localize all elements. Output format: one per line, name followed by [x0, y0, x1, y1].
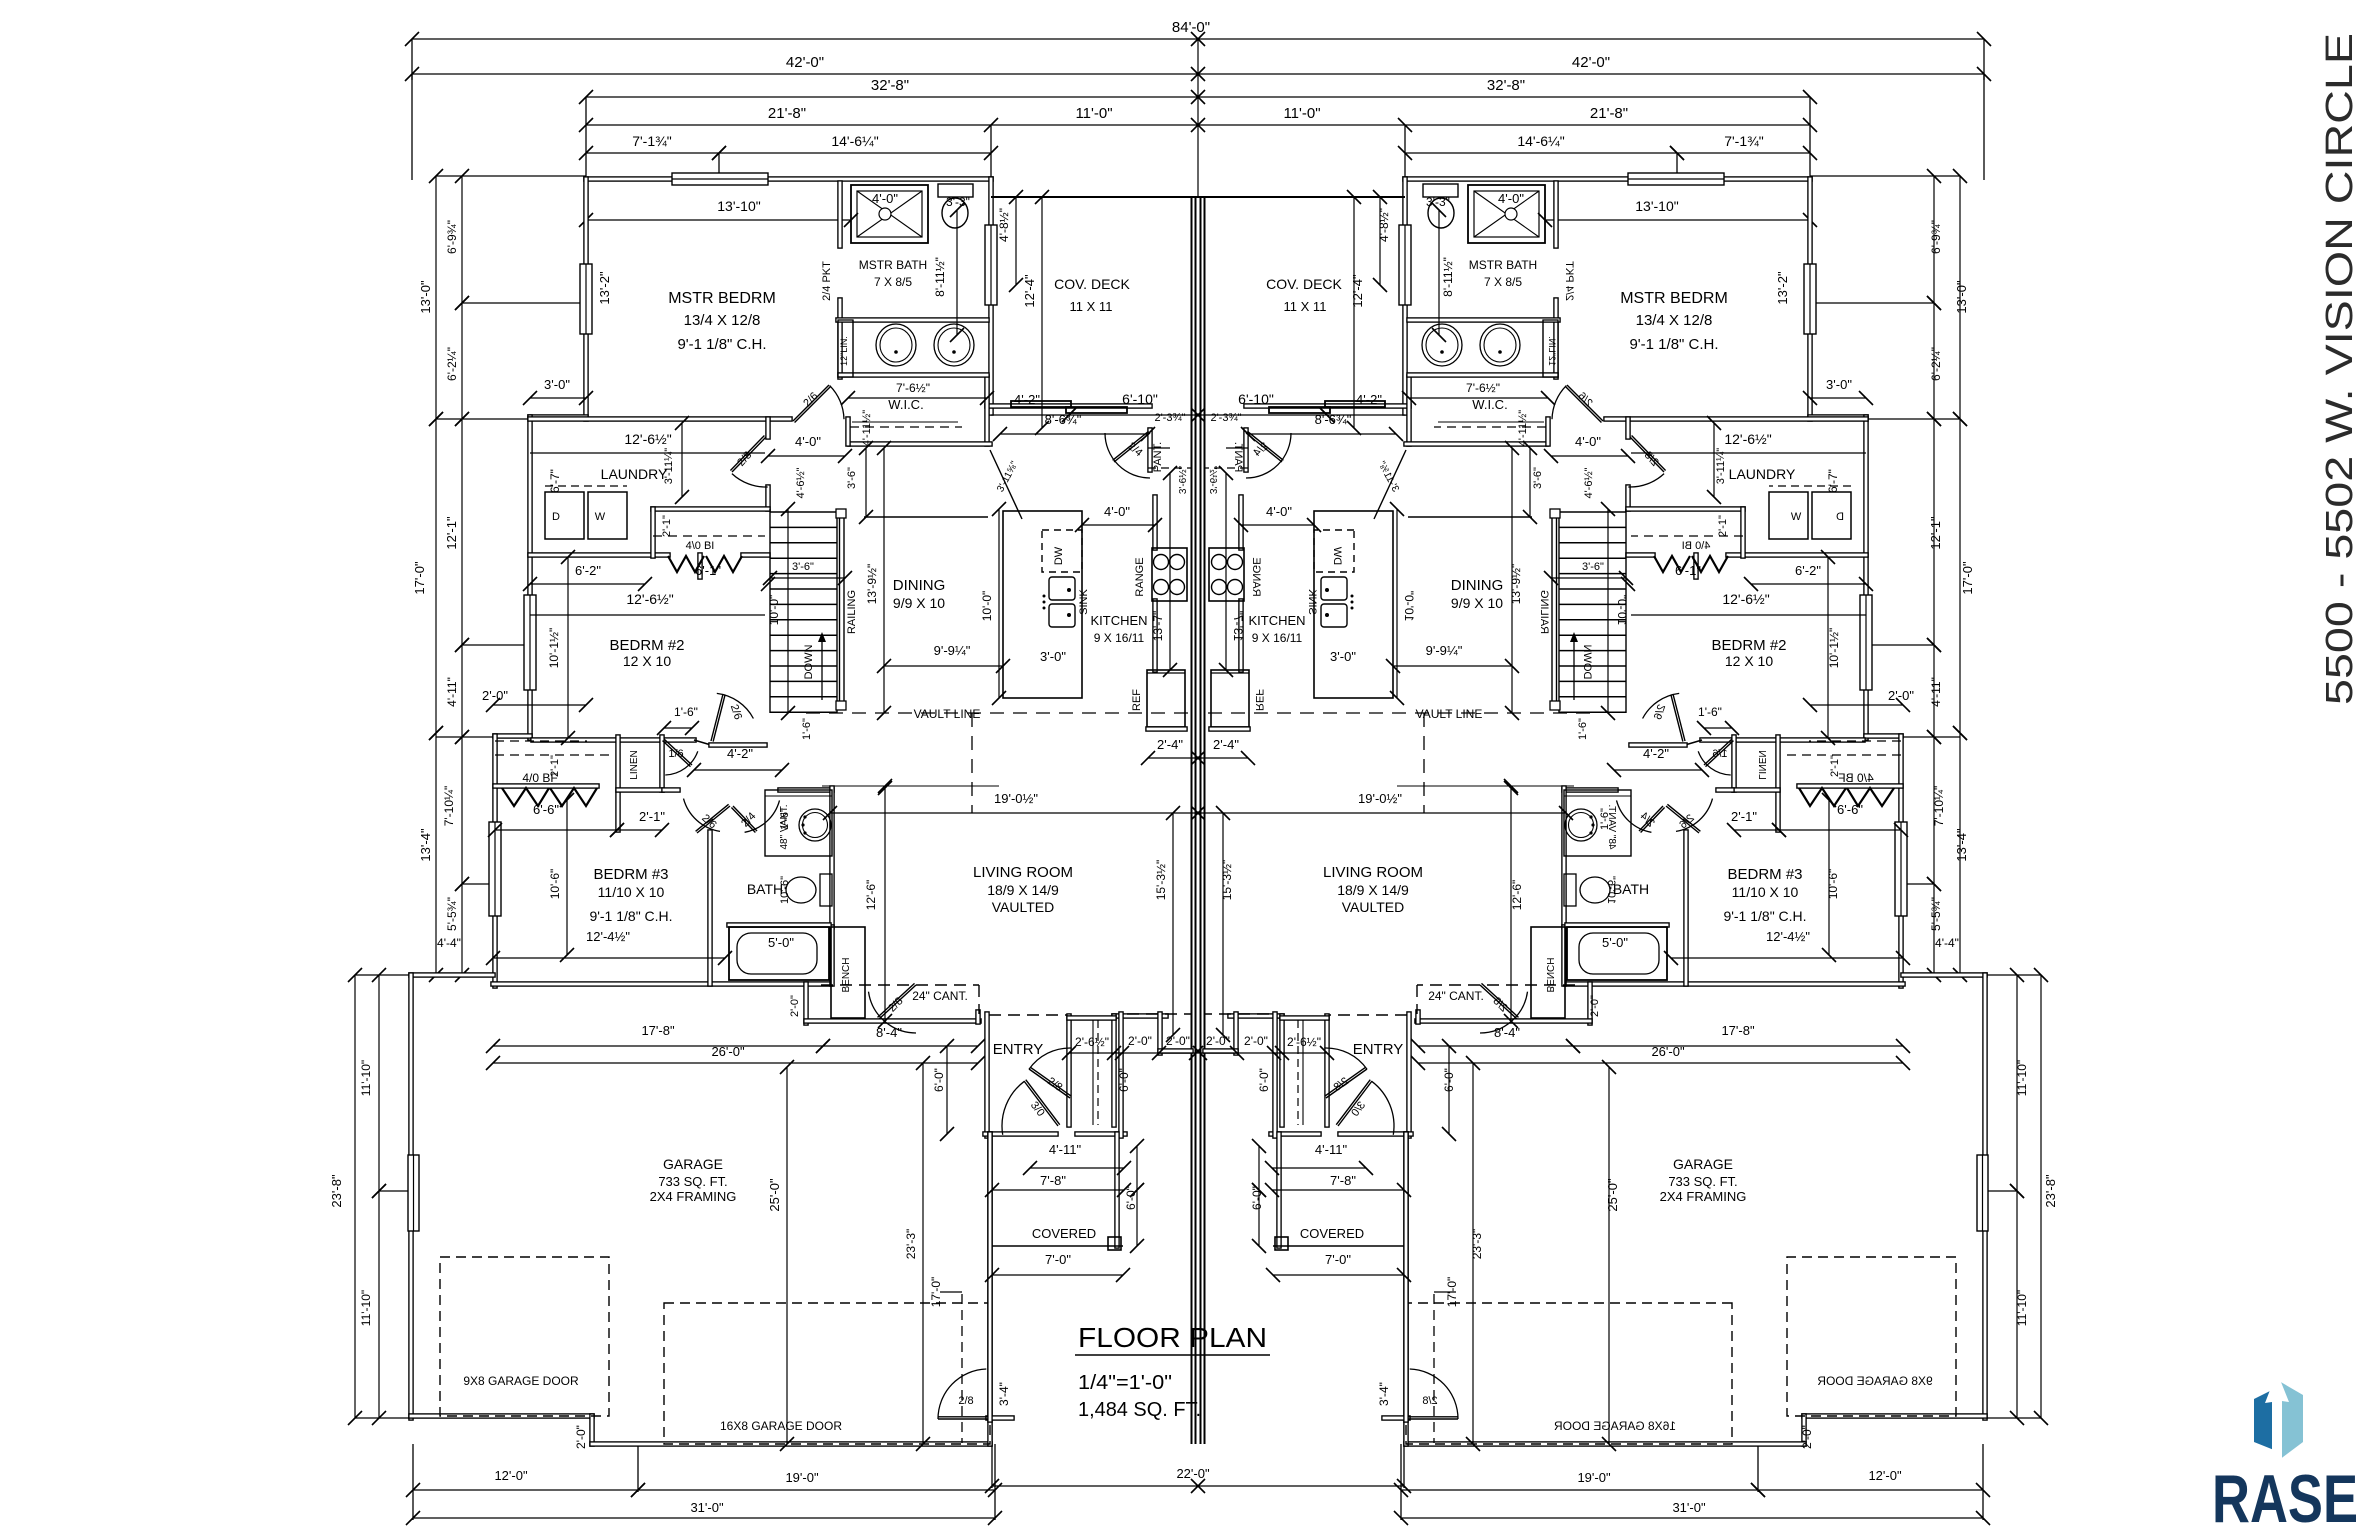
svg-text:4'-0": 4'-0" [872, 191, 898, 206]
svg-text:3'-3": 3'-3" [946, 195, 970, 209]
svg-text:3'-6": 3'-6" [1582, 561, 1604, 573]
entry coat closet [1067, 1014, 1071, 1127]
svg-text:8'-6¾": 8'-6¾" [1045, 412, 1082, 427]
svg-text:RASE: RASE [2212, 1461, 2356, 1526]
interior doors with swing arcs [793, 385, 829, 421]
svg-text:4'-0": 4'-0" [795, 434, 821, 449]
left unit geometry [348, 32, 1205, 1525]
svg-text:15'-3½": 15'-3½" [1154, 860, 1168, 901]
svg-text:13'-4": 13'-4" [1954, 828, 1969, 862]
svg-text:BATH: BATH [747, 881, 783, 897]
svg-text:2'-0": 2'-0" [1244, 1034, 1268, 1048]
svg-text:4'-11": 4'-11" [1315, 1142, 1348, 1157]
svg-text:16X8 GARAGE DOOR: 16X8 GARAGE DOOR [720, 1419, 842, 1433]
svg-text:6'-10": 6'-10" [1238, 391, 1274, 407]
svg-text:12'-6": 12'-6" [1510, 880, 1524, 911]
svg-text:ENTRY: ENTRY [993, 1041, 1044, 1058]
svg-text:COVERED: COVERED [1032, 1226, 1096, 1241]
svg-text:W.I.C.: W.I.C. [1472, 397, 1507, 412]
svg-text:VAULT LINE: VAULT LINE [1416, 707, 1483, 721]
svg-text:17'-0": 17'-0" [1445, 1277, 1459, 1308]
svg-text:42'-0": 42'-0" [786, 54, 824, 71]
svg-text:7 X 8/5: 7 X 8/5 [1484, 275, 1522, 289]
room and dimension labels [329, 54, 2058, 1515]
svg-text:2'-0": 2'-0" [1206, 1034, 1230, 1048]
svg-text:2'-0": 2'-0" [1166, 1034, 1190, 1048]
svg-text:6'-0": 6'-0" [1442, 1068, 1456, 1092]
svg-text:6'-7": 6'-7" [548, 469, 562, 493]
svg-text:DOWN: DOWN [803, 645, 815, 680]
svg-text:12'-6½": 12'-6½" [1722, 591, 1769, 607]
svg-text:23'-3": 23'-3" [904, 1229, 918, 1260]
svg-text:2'-3¾": 2'-3¾" [1210, 412, 1241, 424]
svg-text:BEDRM #2: BEDRM #2 [609, 637, 684, 654]
svg-text:10'-6": 10'-6" [1826, 869, 1840, 900]
svg-text:VAULTED: VAULTED [1342, 899, 1405, 915]
svg-text:MSTR BEDRM: MSTR BEDRM [1620, 290, 1728, 307]
svg-text:BEDRM #3: BEDRM #3 [1727, 866, 1802, 883]
svg-text:2'-6½": 2'-6½" [1075, 1035, 1109, 1049]
svg-text:3'-6½": 3'-6½" [1178, 465, 1189, 494]
svg-text:21'-8": 21'-8" [768, 105, 806, 122]
svg-text:12'-1": 12'-1" [444, 516, 459, 550]
svg-text:8'-11½": 8'-11½" [933, 257, 947, 297]
svg-text:2'-3¾": 2'-3¾" [1154, 412, 1185, 424]
svg-text:1'-6": 1'-6" [1599, 808, 1611, 830]
svg-text:4'-2": 4'-2" [1643, 746, 1669, 761]
svg-text:4'-11½": 4'-11½" [861, 410, 873, 446]
svg-text:9 X 16/11: 9 X 16/11 [1252, 631, 1303, 645]
svg-text:6'-0": 6'-0" [932, 1068, 946, 1092]
svg-text:9/9 X 10: 9/9 X 10 [893, 595, 945, 611]
svg-text:4'-2": 4'-2" [1356, 392, 1382, 407]
svg-text:12 X 10: 12 X 10 [623, 653, 671, 669]
garage walls and doors [409, 973, 495, 977]
svg-text:2'-1": 2'-1" [639, 809, 665, 824]
master bath shower toilet vanity sinks [851, 185, 928, 243]
svg-text:22'-0": 22'-0" [1176, 1466, 1210, 1481]
svg-text:4'-4": 4'-4" [1935, 936, 1959, 950]
svg-text:17'-8": 17'-8" [641, 1023, 675, 1038]
svg-text:25'-0": 25'-0" [767, 1178, 782, 1212]
svg-text:COV. DECK: COV. DECK [1266, 276, 1342, 292]
outer and interior walls left unit [584, 177, 993, 181]
svg-text:12'-6½": 12'-6½" [624, 431, 671, 447]
svg-text:9'-1 1/8" C.H.: 9'-1 1/8" C.H. [1723, 908, 1806, 924]
svg-text:26'-0": 26'-0" [1651, 1044, 1685, 1059]
svg-text:23'-8": 23'-8" [329, 1174, 344, 1208]
svg-text:3'-11¼": 3'-11¼" [663, 448, 675, 484]
svg-text:PANT.: PANT. [1152, 442, 1164, 472]
svg-text:4'-0": 4'-0" [1575, 434, 1601, 449]
stairs with treads railing and DOWN arrow [770, 511, 837, 513]
svg-text:25'-0": 25'-0" [1605, 1178, 1620, 1212]
svg-text:17'-0": 17'-0" [1960, 561, 1975, 595]
svg-text:2X4 FRAMING: 2X4 FRAMING [650, 1189, 737, 1204]
vault line and cantilever dashed lines [806, 712, 1191, 714]
svg-text:VAULT LINE: VAULT LINE [914, 707, 981, 721]
svg-text:LAUNDRY: LAUNDRY [1729, 466, 1796, 482]
svg-text:D: D [552, 511, 560, 523]
svg-text:12'-4": 12'-4" [1350, 274, 1365, 308]
svg-text:4'-2": 4'-2" [1014, 392, 1040, 407]
svg-text:31'-0": 31'-0" [690, 1500, 724, 1515]
svg-text:1'-6": 1'-6" [1698, 705, 1722, 719]
svg-text:19'-0": 19'-0" [785, 1470, 819, 1485]
svg-text:6'-1": 6'-1" [1675, 563, 1701, 578]
svg-text:9'-1 1/8" C.H.: 9'-1 1/8" C.H. [677, 336, 766, 353]
svg-text:2'-0": 2'-0" [482, 688, 508, 703]
svg-text:14'-6¼": 14'-6¼" [1517, 133, 1564, 149]
svg-text:6'-7": 6'-7" [1826, 469, 1840, 493]
svg-text:733 SQ. FT.: 733 SQ. FT. [1668, 1174, 1737, 1189]
svg-text:31'-0": 31'-0" [1672, 1500, 1706, 1515]
svg-text:2/4 PKT: 2/4 PKT [821, 261, 833, 301]
svg-text:RAILING: RAILING [846, 590, 858, 634]
svg-text:COVERED: COVERED [1300, 1226, 1364, 1241]
svg-text:1'-6": 1'-6" [674, 705, 698, 719]
svg-text:8'-4": 8'-4" [876, 1025, 902, 1040]
svg-text:15'-3½": 15'-3½" [1220, 860, 1234, 901]
svg-text:9 X 16/11: 9 X 16/11 [1094, 631, 1145, 645]
svg-text:BENCH: BENCH [841, 957, 852, 992]
svg-text:12'-6": 12'-6" [864, 880, 878, 911]
svg-text:2/8: 2/8 [958, 1395, 973, 1407]
svg-text:23'-3": 23'-3" [1470, 1229, 1484, 1260]
svg-text:4'-0": 4'-0" [1498, 191, 1524, 206]
svg-text:13/4 X 12/8: 13/4 X 12/8 [1636, 312, 1713, 329]
svg-text:12"LIN.: 12"LIN. [839, 336, 849, 366]
svg-text:2X4 FRAMING: 2X4 FRAMING [1660, 1189, 1747, 1204]
entry coat closet [1029, 1069, 1070, 1098]
svg-text:7'-0": 7'-0" [1325, 1252, 1351, 1267]
svg-text:6'-6": 6'-6" [1837, 802, 1863, 817]
svg-text:11'-10": 11'-10" [359, 1290, 373, 1326]
svg-text:W.I.C.: W.I.C. [888, 397, 923, 412]
svg-text:13'-0": 13'-0" [418, 280, 433, 314]
svg-text:2'-0": 2'-0" [1800, 1425, 1814, 1449]
svg-text:2'-4": 2'-4" [1157, 737, 1183, 752]
svg-text:7'-1¾": 7'-1¾" [632, 133, 672, 149]
svg-text:24" CANT.: 24" CANT. [912, 989, 968, 1003]
svg-text:ENTRY: ENTRY [1353, 1041, 1404, 1058]
svg-text:2'-1": 2'-1" [1829, 755, 1841, 777]
kitchen island DW sink range REF pantry [1003, 511, 1082, 698]
svg-text:MSTR BATH: MSTR BATH [1469, 258, 1537, 272]
svg-text:7'-6½": 7'-6½" [1466, 381, 1500, 395]
svg-text:BEDRM #2: BEDRM #2 [1711, 637, 1786, 654]
svg-text:9'-1 1/8" C.H.: 9'-1 1/8" C.H. [589, 908, 672, 924]
svg-text:6'-0": 6'-0" [1257, 1068, 1271, 1092]
svg-text:7'-10¼": 7'-10¼" [1932, 786, 1946, 827]
svg-text:LIVING ROOM: LIVING ROOM [973, 864, 1073, 881]
svg-text:32'-8": 32'-8" [871, 77, 909, 94]
svg-text:10'-0": 10'-0" [980, 591, 994, 622]
svg-text:1'-6": 1'-6" [801, 718, 813, 740]
svg-text:17'-0": 17'-0" [929, 1277, 943, 1308]
svg-text:DINING: DINING [1451, 577, 1504, 594]
svg-text:4'-4": 4'-4" [437, 936, 461, 950]
svg-text:2'-1": 2'-1" [549, 755, 561, 777]
svg-text:BATH: BATH [1613, 881, 1649, 897]
svg-text:11'-10": 11'-10" [359, 1060, 373, 1096]
svg-text:GARAGE: GARAGE [1673, 1156, 1733, 1172]
svg-text:6'-6": 6'-6" [533, 802, 559, 817]
svg-text:3'-6": 3'-6" [1532, 467, 1544, 489]
svg-text:3'-6": 3'-6" [792, 561, 814, 573]
svg-text:12'-4": 12'-4" [1022, 274, 1037, 308]
svg-text:2'-0": 2'-0" [574, 1425, 588, 1449]
garage left dimension columns 23-8 / 11-10 [354, 975, 356, 1418]
svg-text:14'-6¼": 14'-6¼" [831, 133, 878, 149]
svg-text:7'-0": 7'-0" [1045, 1252, 1071, 1267]
svg-text:12'-1": 12'-1" [1928, 516, 1943, 550]
svg-text:1/6: 1/6 [668, 748, 683, 760]
svg-text:KITCHEN: KITCHEN [1248, 613, 1305, 628]
svg-text:2'-0": 2'-0" [1128, 1034, 1152, 1048]
svg-text:4'-11": 4'-11" [1929, 677, 1943, 707]
svg-text:10'-1½": 10'-1½" [1827, 628, 1841, 669]
svg-text:4'-8½": 4'-8½" [1377, 208, 1391, 242]
svg-text:4'-2": 4'-2" [727, 746, 753, 761]
svg-text:13'-10": 13'-10" [717, 198, 760, 214]
svg-text:12'-6½": 12'-6½" [626, 591, 673, 607]
svg-text:8'-6¾": 8'-6¾" [1315, 412, 1352, 427]
svg-text:2'-6½": 2'-6½" [1287, 1035, 1321, 1049]
svg-text:19'-0": 19'-0" [1577, 1470, 1611, 1485]
svg-text:4'-8½": 4'-8½" [997, 208, 1011, 242]
main bath tub bench toilet vanity [729, 927, 829, 980]
svg-text:GARAGE: GARAGE [663, 1156, 723, 1172]
right unit geometry (mirrored) [1191, 32, 2048, 1525]
svg-text:9/9 X 10: 9/9 X 10 [1451, 595, 1503, 611]
svg-text:6'-2¼": 6'-2¼" [1929, 347, 1943, 381]
svg-text:7 X 8/5: 7 X 8/5 [874, 275, 912, 289]
svg-text:3'-0": 3'-0" [544, 377, 570, 392]
svg-text:6'-2¼": 6'-2¼" [445, 347, 459, 381]
svg-text:7'-8": 7'-8" [1040, 1173, 1066, 1188]
svg-text:2'-4": 2'-4" [1213, 737, 1239, 752]
svg-text:21'-8": 21'-8" [1590, 105, 1628, 122]
svg-text:4'-0": 4'-0" [1266, 504, 1292, 519]
svg-text:13'-9½": 13'-9½" [865, 564, 879, 605]
svg-text:DINING: DINING [893, 577, 946, 594]
svg-text:18/9 X 14/9: 18/9 X 14/9 [1337, 882, 1409, 898]
svg-text:LIVING ROOM: LIVING ROOM [1323, 864, 1423, 881]
svg-text:13'-2": 13'-2" [597, 271, 612, 305]
svg-text:6'-2": 6'-2" [575, 563, 601, 578]
RASE builder logo icon [2254, 1372, 2303, 1462]
svg-text:12 X 10: 12 X 10 [1725, 653, 1773, 669]
svg-text:8'-4": 8'-4" [1494, 1025, 1520, 1040]
svg-text:2'-1": 2'-1" [1717, 515, 1729, 537]
svg-text:13'-9½": 13'-9½" [1509, 564, 1523, 605]
svg-text:LINEN: LINEN [629, 750, 640, 779]
svg-text:84'-0": 84'-0" [1172, 19, 1210, 36]
svg-text:3'-0": 3'-0" [1826, 377, 1852, 392]
svg-text:9'-9¼": 9'-9¼" [934, 643, 971, 658]
svg-text:11'-10": 11'-10" [2015, 1290, 2029, 1326]
svg-text:12'-0": 12'-0" [494, 1468, 528, 1483]
svg-text:4'-11": 4'-11" [1049, 1142, 1082, 1157]
svg-text:5'-0": 5'-0" [768, 935, 794, 950]
left vertical dimension columns [435, 176, 437, 419]
svg-text:11 X 11: 11 X 11 [1070, 299, 1113, 314]
svg-text:2'-0": 2'-0" [1888, 688, 1914, 703]
svg-text:1'-6": 1'-6" [1577, 718, 1589, 740]
svg-text:3'-0": 3'-0" [1330, 649, 1356, 664]
top dimension lines 84ft/42ft/32-8/21-8/11-0/7-1.75/14-6.25 [412, 38, 1198, 40]
svg-text:12'-0": 12'-0" [1868, 1468, 1902, 1483]
svg-text:11 X 11: 11 X 11 [1284, 299, 1327, 314]
svg-text:13'-0": 13'-0" [1954, 280, 1969, 314]
svg-text:1/4"=1'-0": 1/4"=1'-0" [1078, 1372, 1172, 1394]
svg-text:5500 - 5502 W. VISION CIRCLE: 5500 - 5502 W. VISION CIRCLE [2319, 33, 2356, 705]
svg-text:13'-7": 13'-7" [1151, 611, 1165, 642]
svg-text:5'-5¾": 5'-5¾" [1929, 897, 1943, 931]
svg-text:4'-6½": 4'-6½" [1583, 467, 1595, 498]
svg-text:6'-0": 6'-0" [1117, 1068, 1131, 1092]
svg-text:MSTR BATH: MSTR BATH [859, 258, 927, 272]
svg-text:23'-8": 23'-8" [2043, 1174, 2058, 1208]
svg-text:REF: REF [1131, 689, 1143, 711]
svg-text:11'-0": 11'-0" [1075, 105, 1112, 122]
svg-text:6'-2": 6'-2" [1795, 563, 1821, 578]
svg-text:13'-4": 13'-4" [418, 828, 433, 862]
svg-text:RANGE: RANGE [1134, 557, 1146, 596]
svg-text:5'-0": 5'-0" [1602, 935, 1628, 950]
svg-text:12'-6½": 12'-6½" [1724, 431, 1771, 447]
svg-text:SINK: SINK [1078, 589, 1090, 615]
svg-text:3'-6": 3'-6" [846, 467, 858, 489]
svg-text:12'-4½": 12'-4½" [1766, 929, 1810, 944]
svg-text:3'-3": 3'-3" [1426, 195, 1450, 209]
covered deck slider door and dims [1011, 401, 1071, 407]
svg-text:4'-6½": 4'-6½" [795, 467, 807, 498]
svg-text:6'-0": 6'-0" [1124, 1186, 1138, 1210]
svg-text:13'-10": 13'-10" [1635, 198, 1678, 214]
svg-text:3'-11¼": 3'-11¼" [1715, 448, 1727, 484]
svg-text:7'-1¾": 7'-1¾" [1724, 133, 1764, 149]
svg-text:17'-8": 17'-8" [1721, 1023, 1755, 1038]
svg-text:13/4 X 12/8: 13/4 X 12/8 [684, 312, 761, 329]
svg-text:24" CANT.: 24" CANT. [1428, 989, 1484, 1003]
svg-text:5'-5¾": 5'-5¾" [445, 897, 459, 931]
svg-text:2'-0": 2'-0" [1589, 995, 1601, 1017]
svg-text:COV. DECK: COV. DECK [1054, 276, 1130, 292]
svg-text:10'-0": 10'-0" [767, 595, 781, 626]
svg-text:LAUNDRY: LAUNDRY [601, 466, 668, 482]
bottom dimension lines 12-0/19-0/31-0/22-0 [413, 1489, 638, 1491]
svg-text:11/10 X 10: 11/10 X 10 [598, 884, 665, 900]
svg-text:4'-0": 4'-0" [1104, 504, 1130, 519]
svg-text:8'-11½": 8'-11½" [1441, 257, 1455, 297]
svg-text:3'-0": 3'-0" [1040, 649, 1066, 664]
svg-text:19'-0½": 19'-0½" [1358, 791, 1402, 806]
svg-text:12'-4½": 12'-4½" [586, 929, 630, 944]
svg-text:6'-1": 6'-1" [695, 563, 721, 578]
interior dimension lines [530, 452, 765, 454]
svg-text:4\0 BI: 4\0 BI [686, 540, 715, 552]
svg-text:1,484 SQ. FT.: 1,484 SQ. FT. [1078, 1399, 1201, 1421]
svg-text:11'-0": 11'-0" [1283, 105, 1320, 122]
svg-text:2'-1": 2'-1" [1731, 809, 1757, 824]
svg-text:3'-4": 3'-4" [997, 1382, 1011, 1406]
svg-text:W: W [595, 511, 606, 523]
covered stoop walls and posts [988, 1132, 992, 1422]
svg-text:7'-6½": 7'-6½" [896, 381, 930, 395]
svg-text:733 SQ. FT.: 733 SQ. FT. [658, 1174, 727, 1189]
svg-text:32'-8": 32'-8" [1487, 77, 1525, 94]
svg-text:18/9 X 14/9: 18/9 X 14/9 [987, 882, 1059, 898]
svg-text:11/10 X 10: 11/10 X 10 [1732, 884, 1799, 900]
svg-text:17'-0": 17'-0" [412, 561, 427, 595]
svg-text:1'-6": 1'-6" [779, 808, 791, 830]
svg-text:10'-6": 10'-6" [548, 869, 562, 900]
svg-text:DW: DW [1053, 546, 1065, 565]
svg-text:BEDRM #3: BEDRM #3 [593, 866, 668, 883]
svg-text:7'-10¼": 7'-10¼" [442, 786, 456, 827]
svg-text:VAULTED: VAULTED [992, 899, 1055, 915]
svg-text:11'-10": 11'-10" [2015, 1060, 2029, 1096]
svg-text:MSTR BEDRM: MSTR BEDRM [668, 290, 776, 307]
svg-text:6'-0": 6'-0" [1250, 1186, 1264, 1210]
svg-text:13'-2": 13'-2" [1775, 271, 1790, 305]
svg-text:4'-11": 4'-11" [445, 677, 459, 707]
svg-text:26'-0": 26'-0" [711, 1044, 745, 1059]
svg-text:FLOOR PLAN: FLOOR PLAN [1078, 1322, 1267, 1353]
svg-text:42'-0": 42'-0" [1572, 54, 1610, 71]
svg-text:9'-9¼": 9'-9¼" [1426, 643, 1463, 658]
svg-text:6'-9¾": 6'-9¾" [445, 220, 459, 254]
svg-text:2'-0": 2'-0" [789, 995, 801, 1017]
svg-text:4'-11½": 4'-11½" [1517, 410, 1529, 446]
svg-text:10'-1½": 10'-1½" [547, 628, 561, 669]
svg-text:KITCHEN: KITCHEN [1090, 613, 1147, 628]
svg-text:7'-8": 7'-8" [1330, 1173, 1356, 1188]
svg-text:9X8 GARAGE DOOR: 9X8 GARAGE DOOR [463, 1374, 579, 1388]
svg-text:6'-10": 6'-10" [1122, 391, 1158, 407]
svg-text:9'-1 1/8" C.H.: 9'-1 1/8" C.H. [1629, 336, 1718, 353]
svg-text:6'-9¾": 6'-9¾" [1929, 220, 1943, 254]
svg-text:19'-0½": 19'-0½" [994, 791, 1038, 806]
svg-text:3'-4": 3'-4" [1377, 1382, 1391, 1406]
laundry washer dryer boxes [545, 492, 584, 539]
svg-text:2'-1": 2'-1" [661, 515, 673, 537]
